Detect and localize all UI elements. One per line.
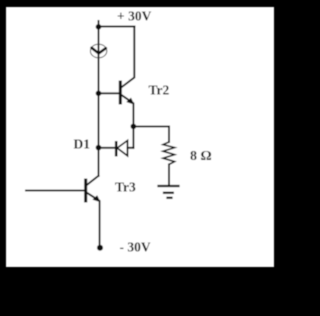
transistor Tr2 base wire [99, 92, 120, 94]
wire: left rail upper (through current source) [98, 27, 100, 94]
transistor Tr3 collector lead [87, 176, 99, 185]
wire: output node to resistor [133, 126, 169, 142]
wire: left rail mid [98, 93, 100, 147]
resistor 8ohm zigzag [163, 142, 175, 164]
transistor Tr3 base wire [26, 190, 85, 192]
transistor Tr2 emitter arrow [126, 98, 134, 105]
current source symbol circle [90, 44, 106, 58]
diode D1 cathode bar [115, 142, 118, 155]
transistor Tr3 emitter arrow [93, 195, 101, 202]
wire: resistor to ground [168, 164, 170, 186]
transistor Tr3 base bar [84, 180, 87, 201]
white schematic canvas [6, 7, 274, 267]
svg-text:+ 30V: + 30V [117, 9, 152, 24]
wire: left rail top stub [98, 21, 100, 27]
node: -30V terminal dot [97, 245, 103, 251]
node: emitter/output junction dot [131, 124, 137, 130]
wire: output node down to diode level [132, 126, 134, 147]
svg-text:Tr3: Tr3 [115, 179, 136, 194]
wire: left rail lower to Tr3 collector [98, 148, 100, 176]
svg-text:D1: D1 [74, 136, 91, 151]
transistor Tr2 collector lead [122, 27, 135, 88]
transistor Tr2 emitter lead [122, 95, 134, 126]
ground symbol [159, 185, 179, 187]
transistor Tr2 base bar [119, 82, 122, 103]
svg-text:8 Ω: 8 Ω [190, 149, 212, 164]
transistor Tr3 emitter lead [87, 193, 100, 248]
node: Tr2 base junction dot [96, 91, 102, 97]
diode D1 triangle [117, 141, 127, 156]
node: +30V junction dot [96, 24, 102, 30]
wire: top horizontal +30V [99, 26, 135, 28]
current source arrowhead (down chevron) [92, 48, 106, 54]
svg-text:- 30V: - 30V [120, 239, 151, 254]
svg-text:Tr2: Tr2 [149, 83, 170, 98]
wire: diode left connection [99, 147, 116, 149]
node: D1 junction dot [96, 145, 102, 151]
wire: diode right connection [128, 147, 134, 149]
